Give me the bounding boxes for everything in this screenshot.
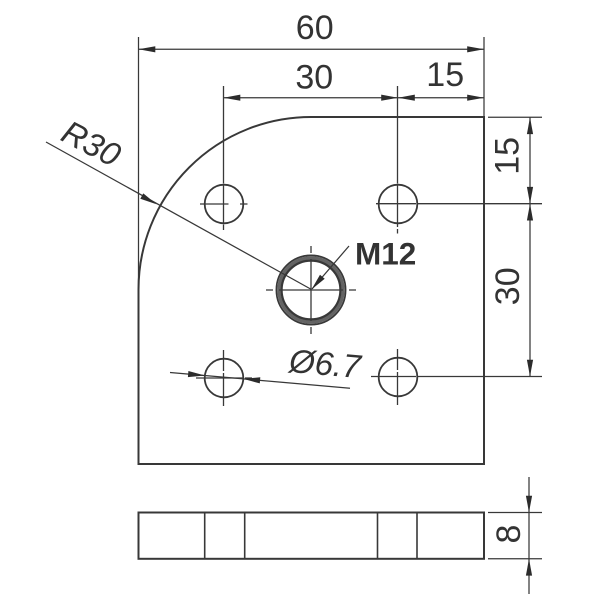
- centerline M12 horizontal: [266, 289, 356, 291]
- arrow 60 left: [139, 46, 156, 52]
- centerline TR hole vertical + ext: [397, 86, 399, 234]
- ext line 60 left: [138, 37, 140, 290]
- arrow 30 right: [381, 95, 398, 101]
- centerline M12 vertical: [310, 246, 312, 334]
- arrow dia6.7 right (points left, tip at circle right edge): [243, 377, 260, 383]
- svg-text:30: 30: [489, 267, 527, 305]
- dim line 8: [528, 477, 530, 594]
- ext line 8 bottom: [488, 558, 542, 560]
- hole bottom-right circle: [379, 358, 418, 397]
- svg-text:15: 15: [426, 56, 464, 94]
- M12 tap drill circle: [282, 261, 341, 320]
- centerline BL hole horizontal: [196, 377, 252, 379]
- hole top-right circle: [379, 185, 418, 224]
- ext line 60/15 right: [483, 37, 485, 117]
- centerline TL hole vertical + ext line for 30 dim: [223, 86, 225, 230]
- side view outline: [139, 513, 485, 559]
- arrows: [139, 46, 534, 575]
- centerline TL hole horizontal: [196, 86, 542, 406]
- arrow right-15 down: [527, 187, 533, 204]
- svg-text:Ø6.7: Ø6.7: [287, 342, 364, 385]
- dia 6.7 leader line: [170, 373, 350, 389]
- arrow right-30 up: [527, 204, 533, 221]
- arrow right-15 up: [527, 117, 533, 134]
- hole top-left circle: [205, 185, 244, 224]
- side view hole line 4: [416, 513, 418, 559]
- dim line 30 top: [224, 97, 399, 99]
- M12 major dia circle: [276, 255, 345, 324]
- ext line 8 top: [488, 512, 542, 514]
- arrow 8 top (outside, points down): [526, 496, 532, 513]
- svg-text:M12: M12: [355, 236, 416, 272]
- arrow 15 left (points left, tip at 398): [398, 95, 415, 101]
- centerline BL hole vertical: [223, 350, 225, 406]
- centerline BR hole horizontal + ext to right dims: [371, 376, 542, 378]
- centerline BR hole vertical: [397, 349, 399, 405]
- side view hole line 1: [204, 513, 206, 559]
- arrow right-30 down: [527, 360, 533, 377]
- M12 blur band: [279, 258, 343, 322]
- ext line right top corner: [488, 116, 542, 118]
- svg-text:8: 8: [490, 525, 528, 544]
- side view hole line 2: [244, 513, 246, 559]
- arrow 60 right: [467, 46, 484, 52]
- side view hole line 3: [377, 513, 379, 559]
- svg-text:30: 30: [295, 59, 333, 97]
- arrow 30 left: [224, 95, 241, 101]
- hole bottom-left circle: [205, 359, 244, 398]
- arrow 8 bottom (outside, points up): [526, 559, 532, 576]
- svg-text:15: 15: [488, 137, 526, 175]
- M12 leader line: [312, 246, 349, 289]
- dim line 15 top: [398, 97, 484, 99]
- centerline TR hole horizontal + ext to right dims: [376, 203, 542, 205]
- plate outline front view: [139, 117, 485, 464]
- arrow M12 at center: [312, 275, 325, 290]
- dim line right vertical 15/30: [529, 117, 531, 376]
- svg-text:60: 60: [296, 9, 334, 47]
- arrow dia6.7 left (points right, tip at circle left edge): [188, 371, 205, 377]
- R30 leader line: [46, 142, 312, 290]
- arrow R30 at arc: [140, 193, 156, 204]
- arrow 15 right: [467, 95, 484, 101]
- dim line 60: [139, 48, 485, 50]
